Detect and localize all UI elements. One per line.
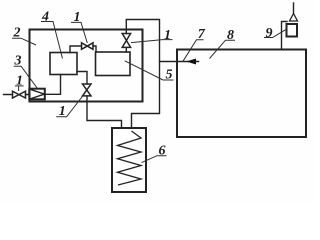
svg-text:1: 1: [74, 10, 81, 25]
svg-text:1: 1: [59, 104, 66, 119]
svg-text:1: 1: [16, 74, 23, 89]
svg-text:3: 3: [14, 53, 22, 68]
svg-text:1: 1: [164, 28, 171, 43]
svg-text:2: 2: [13, 26, 21, 41]
svg-text:8: 8: [227, 28, 234, 43]
svg-text:7: 7: [198, 27, 206, 42]
svg-text:4: 4: [41, 10, 49, 25]
svg-text:9: 9: [266, 26, 273, 41]
svg-text:5: 5: [166, 67, 173, 82]
svg-text:6: 6: [159, 144, 166, 159]
